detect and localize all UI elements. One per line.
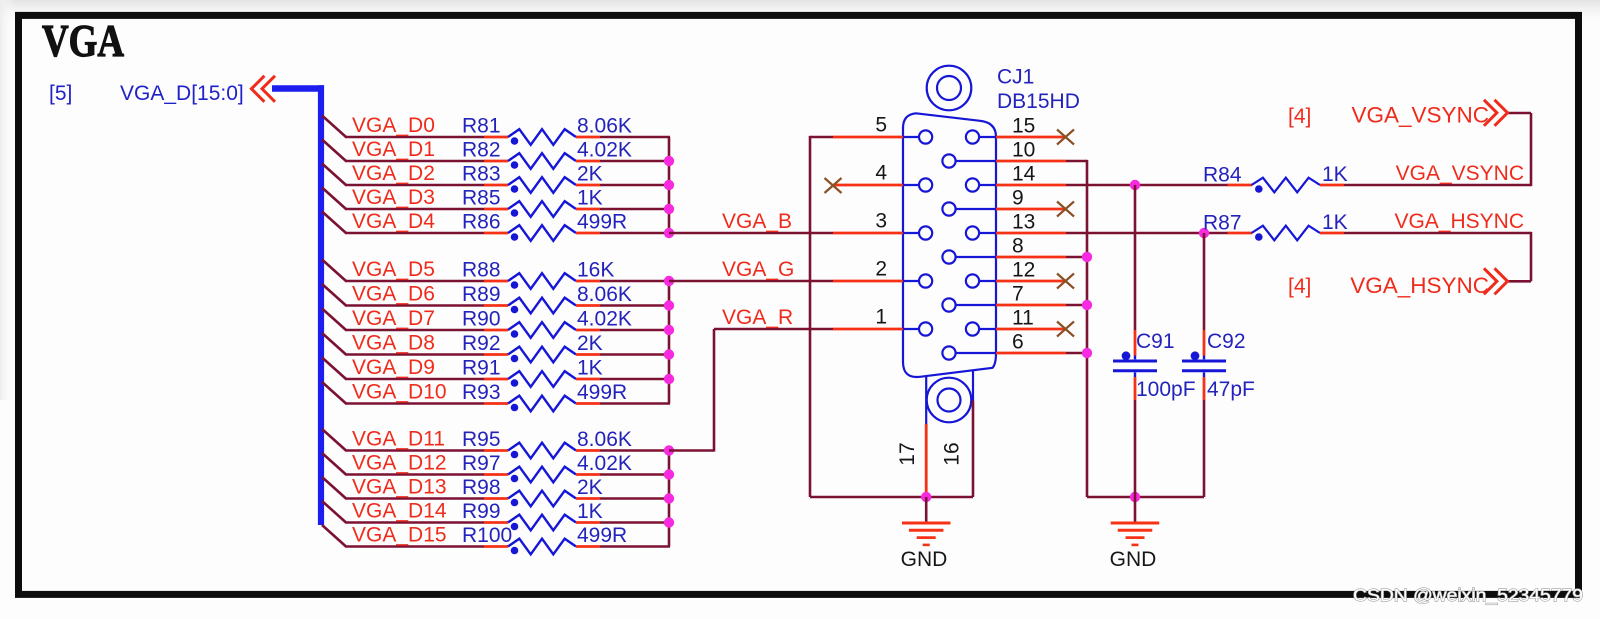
junction dot [664, 276, 674, 286]
wire VGA_D11 to junction [600, 449, 670, 452]
wire to GND 1 [925, 497, 928, 522]
wire VGA_D6 to junction [600, 304, 670, 307]
resistor R97 value 4.02K [462, 452, 632, 482]
bus entry wire for VGA_D14 [322, 501, 346, 523]
svg-text:1K: 1K [577, 187, 603, 210]
svg-text:R97: R97 [462, 452, 501, 475]
bus entry wire for VGA_D4 [322, 212, 346, 234]
svg-text:R98: R98 [462, 476, 501, 499]
svg-text:VGA_D15: VGA_D15 [352, 524, 447, 547]
svg-text:8.06K: 8.06K [577, 283, 632, 306]
svg-text:VGA_VSYNC: VGA_VSYNC [1396, 162, 1524, 185]
wire pin8 [1066, 256, 1087, 259]
pin 4 lead [833, 184, 903, 187]
wire to GND 2 [1134, 497, 1137, 522]
svg-text:499R: 499R [577, 381, 627, 404]
wire VGA_D4 [345, 232, 484, 235]
junction dot C92 top [1199, 228, 1209, 238]
pin 14 lead [996, 184, 1066, 187]
wire VGA_D6 [345, 304, 484, 307]
svg-text:VGA_G: VGA_G [722, 258, 794, 281]
resistor R92 value 2K [462, 332, 603, 362]
pin 2 circle [903, 274, 932, 287]
wire VGA_D5 [345, 280, 484, 283]
wire pin14 to R84 [1066, 184, 1228, 187]
svg-text:100pF: 100pF [1136, 378, 1196, 401]
wire VGA_D0 [345, 136, 484, 139]
svg-text:[4]: [4] [1288, 105, 1311, 128]
junction dot [664, 156, 674, 166]
bus entry wire for VGA_D5 [322, 260, 346, 282]
svg-text:C91: C91 [1136, 330, 1175, 353]
svg-text:2: 2 [875, 258, 887, 281]
svg-text:VGA_D7: VGA_D7 [352, 307, 435, 330]
resistor R98 value 2K [462, 476, 603, 506]
wire VGA_D9 [345, 378, 484, 381]
svg-text:CSDN @weixin_52345779: CSDN @weixin_52345779 [1353, 585, 1583, 606]
svg-text:8.06K: 8.06K [577, 428, 632, 451]
no-connect X pin 9 [1057, 202, 1074, 217]
svg-text:8.06K: 8.06K [577, 115, 632, 138]
junction wire group D0-D4 [668, 137, 671, 233]
resistor R100 value 499R [462, 524, 627, 554]
svg-text:2K: 2K [577, 476, 603, 499]
svg-text:VGA_D0: VGA_D0 [352, 114, 435, 137]
junction dot pin8 [1082, 252, 1092, 262]
svg-text:GND: GND [901, 548, 948, 571]
bus entry wire for VGA_D12 [322, 453, 346, 475]
resistor R82 value 4.02K [462, 139, 632, 169]
junction dot [664, 493, 674, 503]
junction dot [664, 180, 674, 190]
svg-text:VGA_D1: VGA_D1 [352, 138, 435, 161]
wire VGA_D2 to junction [600, 184, 670, 187]
resistor R87 1K [1203, 211, 1348, 241]
resistor R90 value 4.02K [462, 308, 632, 338]
svg-text:R100: R100 [462, 524, 512, 547]
pin 3 lead [833, 232, 903, 235]
svg-text:[4]: [4] [1288, 275, 1311, 298]
pin 16 wire [972, 401, 975, 498]
wire VGA_D9 to junction [600, 378, 670, 381]
bus entry wire for VGA_D7 [322, 309, 346, 331]
bus entry wire for VGA_D8 [322, 333, 346, 355]
svg-text:1K: 1K [577, 357, 603, 380]
no-connect X pin 11 [1057, 322, 1074, 337]
svg-text:6: 6 [1012, 331, 1024, 354]
wire VGA_D15 to junction [600, 545, 670, 548]
resistor R95 value 8.06K [462, 428, 632, 458]
pin 1 lead [833, 328, 903, 331]
resistor R85 value 1K [462, 187, 603, 217]
pin 7 circle [942, 298, 996, 311]
svg-text:3: 3 [875, 210, 887, 233]
junction dot [664, 517, 674, 527]
port chevron VGA_VSYNC [1484, 100, 1508, 126]
junction dot [664, 228, 674, 238]
wire pin5 to GND rail [810, 136, 973, 497]
svg-text:CJ1: CJ1 [997, 66, 1034, 89]
pin 11 lead [996, 328, 1066, 331]
svg-text:15: 15 [1012, 115, 1035, 138]
svg-text:VGA_D12: VGA_D12 [352, 452, 447, 475]
bus entry wire for VGA_D3 [322, 188, 346, 210]
wire VGA_D11 [345, 449, 484, 452]
wire VGA_D14 [345, 521, 484, 524]
wire pin6 [1066, 352, 1087, 355]
bus entry chevron [251, 76, 275, 102]
GND rail 2 [1087, 496, 1204, 499]
connector bottom screw hole [926, 371, 973, 424]
pin 11 circle [966, 322, 996, 335]
svg-text:VGA_D5: VGA_D5 [352, 258, 435, 281]
svg-text:R90: R90 [462, 308, 501, 331]
wire VGA_D14 to junction [600, 521, 670, 524]
no-connect X pin 4 [825, 178, 842, 193]
pin 13 lead [996, 232, 1066, 235]
wire R87 to VGA_HSYNC port [1344, 232, 1531, 281]
wire VGA_D15 [345, 545, 484, 548]
junction wire group D5-D10 [668, 281, 671, 404]
svg-text:47pF: 47pF [1207, 378, 1255, 401]
pin 15 lead [996, 136, 1066, 139]
wire VGA_D13 [345, 497, 484, 500]
bus entry wire for VGA_D1 [322, 140, 346, 162]
pin 4 circle [903, 178, 932, 191]
svg-text:R92: R92 [462, 332, 501, 355]
wire VGA_D10 to junction [600, 402, 670, 405]
svg-text:R82: R82 [462, 139, 501, 162]
svg-text:GND: GND [1110, 548, 1157, 571]
bus entry wire for VGA_D10 [322, 382, 346, 404]
svg-text:1K: 1K [1322, 211, 1348, 234]
svg-text:4.02K: 4.02K [577, 308, 632, 331]
svg-text:VGA: VGA [42, 15, 124, 66]
resistor R81 value 8.06K [462, 115, 632, 145]
svg-text:R83: R83 [462, 163, 501, 186]
svg-text:VGA_D2: VGA_D2 [352, 162, 435, 185]
svg-text:VGA_B: VGA_B [722, 210, 792, 233]
svg-text:10: 10 [1012, 139, 1035, 162]
resistor R86 value 499R [462, 211, 627, 241]
svg-text:R88: R88 [462, 259, 501, 282]
wire VGA_D13 to junction [600, 497, 670, 500]
svg-text:R95: R95 [462, 428, 501, 451]
svg-text:12: 12 [1012, 259, 1035, 282]
svg-text:2K: 2K [577, 163, 603, 186]
svg-text:1: 1 [875, 306, 887, 329]
wire VGA_D8 to junction [600, 353, 670, 356]
resistor R88 value 16K [462, 259, 614, 289]
pin 2 lead [833, 280, 903, 283]
junction dot [664, 374, 674, 384]
pin 12 circle [966, 274, 996, 287]
resistor R93 value 499R [462, 381, 627, 411]
svg-text:5: 5 [875, 114, 887, 137]
pin 9 lead [996, 208, 1066, 211]
pin 1 circle [903, 322, 932, 335]
pin 15 circle [966, 130, 996, 143]
svg-text:17: 17 [896, 442, 919, 465]
svg-text:R93: R93 [462, 381, 501, 404]
svg-text:VGA_D11: VGA_D11 [352, 428, 445, 451]
wire VGA_G [669, 280, 833, 283]
pin 10 circle [942, 154, 996, 167]
wire VGA_B [669, 232, 833, 235]
wire VGA_D4 to junction [600, 232, 670, 235]
port chevron VGA_HSYNC [1484, 268, 1508, 294]
wire VGA_D10 [345, 402, 484, 405]
pin 10 lead [996, 160, 1066, 163]
svg-text:VGA_R: VGA_R [722, 306, 793, 329]
svg-text:VGA_D10: VGA_D10 [352, 381, 447, 404]
junction dot pin7 [1082, 300, 1092, 310]
resistor R83 value 2K [462, 163, 603, 193]
junction dot [664, 325, 674, 335]
svg-text:9: 9 [1012, 187, 1024, 210]
pin 17 lead [925, 424, 928, 497]
wire pin7 [1066, 304, 1087, 307]
pin 9 circle [942, 202, 996, 215]
svg-text:R84: R84 [1203, 164, 1242, 187]
svg-text:R86: R86 [462, 211, 501, 234]
svg-text:16: 16 [941, 442, 964, 465]
bus entry wire for VGA_D2 [322, 164, 346, 186]
svg-text:VGA_D8: VGA_D8 [352, 332, 435, 355]
capacitor C91 100pF [1113, 185, 1196, 497]
junction dot [664, 300, 674, 310]
svg-text:VGA_D6: VGA_D6 [352, 283, 435, 306]
pin 5 lead [833, 136, 903, 139]
wire VGA_D0 to junction [600, 136, 670, 139]
junction dot [664, 349, 674, 359]
wire VGA_R [669, 329, 833, 452]
svg-text:1K: 1K [577, 500, 603, 523]
wire VGA_D2 [345, 184, 484, 187]
wire VGA_D5 to junction [600, 280, 670, 283]
junction dot [664, 445, 674, 455]
pin 6 lead [996, 352, 1066, 355]
junction dot C91 top [1130, 180, 1140, 190]
junction dot [664, 204, 674, 214]
svg-text:R85: R85 [462, 187, 501, 210]
svg-text:VGA_HSYNC: VGA_HSYNC [1394, 210, 1524, 233]
bus entry wire for VGA_D6 [322, 284, 346, 306]
svg-text:VGA_D13: VGA_D13 [352, 476, 447, 499]
pin 3 circle [903, 226, 932, 239]
pin 8 circle [942, 250, 996, 263]
svg-text:R87: R87 [1203, 212, 1242, 235]
pin 13 circle [966, 226, 996, 239]
svg-text:R99: R99 [462, 500, 501, 523]
resistor R84 1K [1203, 163, 1348, 193]
wire VGA_D7 [345, 329, 484, 332]
bus entry wire for VGA_D0 [322, 116, 346, 138]
ground GND 2 [1111, 523, 1160, 545]
bus entry wire for VGA_D11 [322, 429, 346, 451]
svg-text:13: 13 [1012, 211, 1035, 234]
wire VGA_D12 to junction [600, 473, 670, 476]
svg-text:VGA_VSYNC: VGA_VSYNC [1351, 103, 1489, 128]
svg-text:499R: 499R [577, 211, 627, 234]
resistor R89 value 8.06K [462, 283, 632, 313]
svg-text:499R: 499R [577, 524, 627, 547]
svg-text:R81: R81 [462, 115, 501, 138]
svg-text:4.02K: 4.02K [577, 139, 632, 162]
connector CJ1 DB15HD body [903, 113, 996, 377]
junction dot [664, 469, 674, 479]
connector top screw hole [927, 66, 972, 111]
svg-text:VGA_D14: VGA_D14 [352, 500, 447, 523]
resistor R91 value 1K [462, 357, 603, 387]
junction dot rail2/C91 [1130, 492, 1140, 502]
svg-text:7: 7 [1012, 283, 1024, 306]
bus VGA_D[15:0] vertical [318, 85, 324, 525]
wire pin10 down [1066, 160, 1087, 497]
pin 5 circle [903, 130, 932, 143]
junction dot pin6 [1082, 348, 1092, 358]
no-connect X pin 12 [1057, 274, 1074, 289]
svg-text:16K: 16K [577, 259, 614, 282]
svg-text:VGA_D4: VGA_D4 [352, 210, 435, 233]
svg-text:4.02K: 4.02K [577, 452, 632, 475]
pin 8 lead [996, 256, 1066, 259]
bus entry wire for VGA_D13 [322, 477, 346, 499]
svg-text:11: 11 [1012, 307, 1034, 330]
ground GND 1 [902, 523, 951, 545]
pin 6 circle [942, 346, 996, 359]
svg-text:VGA_HSYNC: VGA_HSYNC [1350, 273, 1489, 298]
svg-text:1K: 1K [1322, 163, 1348, 186]
wire VGA_D1 to junction [600, 160, 670, 163]
junction wire group D11-D15 [668, 451, 671, 547]
svg-text:VGA_D9: VGA_D9 [352, 356, 435, 379]
bus entry wire for VGA_D15 [322, 525, 346, 547]
wire VGA_D1 [345, 160, 484, 163]
wire VGA_D7 to junction [600, 329, 670, 332]
bus VGA_D[15:0] horizontal [272, 85, 324, 92]
bus entry wire for VGA_D9 [322, 358, 346, 380]
resistor R99 value 1K [462, 500, 603, 530]
wire pin13 to R87 [1066, 232, 1228, 235]
wire VGA_D8 [345, 353, 484, 356]
pin 7 lead [996, 304, 1066, 307]
wire R84 to VGA_VSYNC port [1344, 113, 1531, 186]
svg-text:VGA_D3: VGA_D3 [352, 186, 435, 209]
svg-text:R91: R91 [462, 357, 501, 380]
wire VGA_D3 [345, 208, 484, 211]
svg-text:8: 8 [1012, 235, 1024, 258]
wire VGA_D3 to junction [600, 208, 670, 211]
svg-text:[5]: [5] [49, 82, 72, 105]
wire VGA_D12 [345, 473, 484, 476]
svg-text:C92: C92 [1207, 330, 1246, 353]
svg-text:14: 14 [1012, 163, 1036, 186]
pin 14 circle [966, 178, 996, 191]
pin 12 lead [996, 280, 1066, 283]
svg-text:R89: R89 [462, 283, 501, 306]
svg-text:2K: 2K [577, 332, 603, 355]
svg-text:4: 4 [875, 162, 887, 185]
svg-text:DB15HD: DB15HD [997, 90, 1080, 113]
capacitor C92 47pF [1182, 233, 1255, 497]
svg-text:VGA_D[15:0]: VGA_D[15:0] [120, 82, 244, 105]
no-connect X pin 15 [1057, 130, 1074, 145]
junction dot pin17/rail [921, 492, 931, 502]
